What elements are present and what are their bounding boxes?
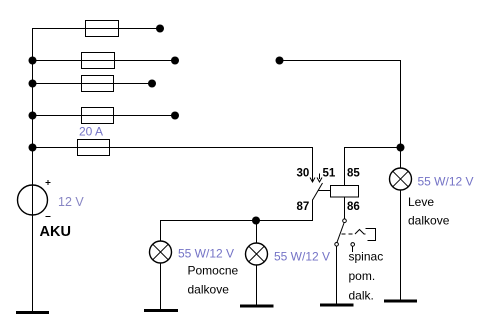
battery AKU circle [18, 185, 48, 215]
svg-text:55 W/12 V: 55 W/12 V [178, 247, 234, 261]
ground: lamp L2 [240, 305, 274, 308]
relay contact pin 30 arrow [310, 178, 315, 183]
wire: relay pin 86 down to switch [344, 197, 346, 219]
lamp L3 Leve dalkove [390, 168, 412, 190]
switch S1 actuator dashed link [342, 233, 356, 235]
svg-text:85: 85 [347, 168, 360, 180]
node: row4 right dot [171, 112, 179, 120]
node: row5 bus dot [29, 144, 37, 152]
fuse F5 20A [78, 140, 110, 156]
wire: lamp L2 feed [256, 220, 258, 243]
node: row2 bus dot [29, 57, 37, 65]
lamp L2 Pomocne dalkove [246, 243, 268, 265]
svg-text:55 W/12 V: 55 W/12 V [418, 175, 474, 189]
svg-text:Pomocne: Pomocne [188, 264, 239, 278]
wire: lamp L2 to ground [256, 265, 258, 306]
fuse F1 [86, 21, 119, 37]
relay coil [331, 186, 359, 198]
svg-text:20 A: 20 A [79, 125, 103, 139]
wire: relay pin 87 to lamp rail [161, 200, 313, 221]
svg-text:AKU: AKU [40, 224, 71, 240]
fuse F2 [82, 53, 115, 69]
battery plus sign [46, 180, 51, 185]
svg-text:30: 30 [297, 168, 310, 180]
ground: battery [16, 311, 49, 314]
wire: lamp L1 feed [160, 220, 162, 241]
svg-text:spinac: spinac [349, 250, 384, 264]
wire: relay pin 85 riser joining lamp feed [345, 148, 401, 186]
node: junction dot lamp L2 feed [252, 217, 260, 225]
fuse F3 [82, 76, 114, 92]
switch S1 lower-left terminal [335, 243, 339, 247]
relay contact blade [313, 183, 323, 200]
svg-text:dalkove: dalkove [408, 214, 450, 228]
node: row3 right dot [148, 80, 156, 88]
node: row1 right dot [156, 25, 164, 33]
ground: switch S1 [320, 304, 354, 307]
wire: fuse row 2 [32, 60, 175, 62]
relay contact pin 51 arrow [317, 174, 322, 183]
battery minus sign [46, 216, 51, 218]
switch S1 lower-right terminal with stub [351, 243, 355, 247]
svg-text:pom.: pom. [349, 269, 376, 283]
switch S1 actuator detent bump [355, 230, 366, 235]
wire: feed to lamp L3 down right side [280, 61, 401, 168]
switch S1 actuator bracket [366, 229, 376, 241]
switch S1 blade [337, 223, 344, 242]
node: row2 right dot [171, 57, 179, 65]
svg-text:12 V: 12 V [58, 195, 84, 209]
svg-text:87: 87 [297, 201, 310, 213]
wire: lamp L1 to ground [160, 263, 162, 310]
node: row3 bus dot [29, 80, 37, 88]
node: row4 bus dot [29, 112, 37, 120]
switch S1 top terminal [343, 219, 347, 223]
svg-text:dalkove: dalkove [188, 283, 230, 297]
wire: fuse row 4 [32, 115, 175, 117]
node: junction dot lamp L3 feed [397, 144, 405, 152]
svg-text:51: 51 [323, 168, 336, 180]
lamp L1 Pomocne dalkove [150, 241, 172, 263]
wire: fuse row 1 [32, 28, 159, 30]
wire: fuse row 3 [32, 83, 152, 85]
wire: switch S1 to ground [336, 247, 338, 305]
wire: lamp L3 to ground [400, 190, 402, 301]
ground: lamp L3 [384, 300, 417, 303]
wire: fuse row 5 (20 A feed) to relay pin 30 [32, 148, 313, 183]
wire: left supply bus vertical [32, 28, 34, 312]
node: feed dot for Leve dalkove branch [276, 57, 284, 65]
svg-text:86: 86 [347, 201, 360, 213]
relay actuator link [318, 190, 331, 192]
svg-text:55 W/12 V: 55 W/12 V [274, 250, 330, 264]
ground: lamp L1 [144, 309, 178, 312]
svg-text:Leve: Leve [408, 195, 434, 209]
fuse F4 [82, 108, 114, 124]
svg-text:dalk.: dalk. [349, 289, 374, 303]
